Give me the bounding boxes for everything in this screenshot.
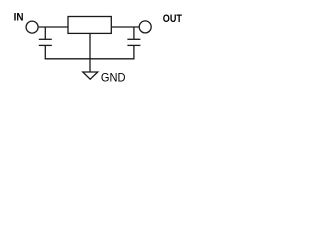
svg-text:OUT: OUT	[163, 13, 182, 25]
wire C1 to ground rail	[44, 45, 46, 59]
wire regulator ground pin	[89, 33, 91, 72]
regulator box U1	[68, 17, 111, 34]
capacitor C1 top plate	[39, 38, 52, 40]
capacitor C2 bottom plate	[127, 44, 140, 46]
wire C2 to ground rail	[133, 45, 135, 59]
svg-text:IN: IN	[14, 12, 24, 24]
wire junction to capacitor C1	[44, 27, 46, 39]
capacitor C2 top plate	[127, 38, 140, 40]
wire input terminal to regulator	[39, 26, 68, 28]
wire junction to capacitor C2	[133, 27, 135, 39]
output terminal circle	[139, 21, 151, 33]
input terminal circle	[26, 21, 38, 33]
capacitor C1 bottom plate	[39, 44, 52, 46]
ground rail wire	[45, 58, 135, 60]
wire regulator to output terminal	[111, 26, 139, 28]
svg-text:GND: GND	[101, 71, 126, 85]
ground symbol triangle	[83, 72, 98, 79]
